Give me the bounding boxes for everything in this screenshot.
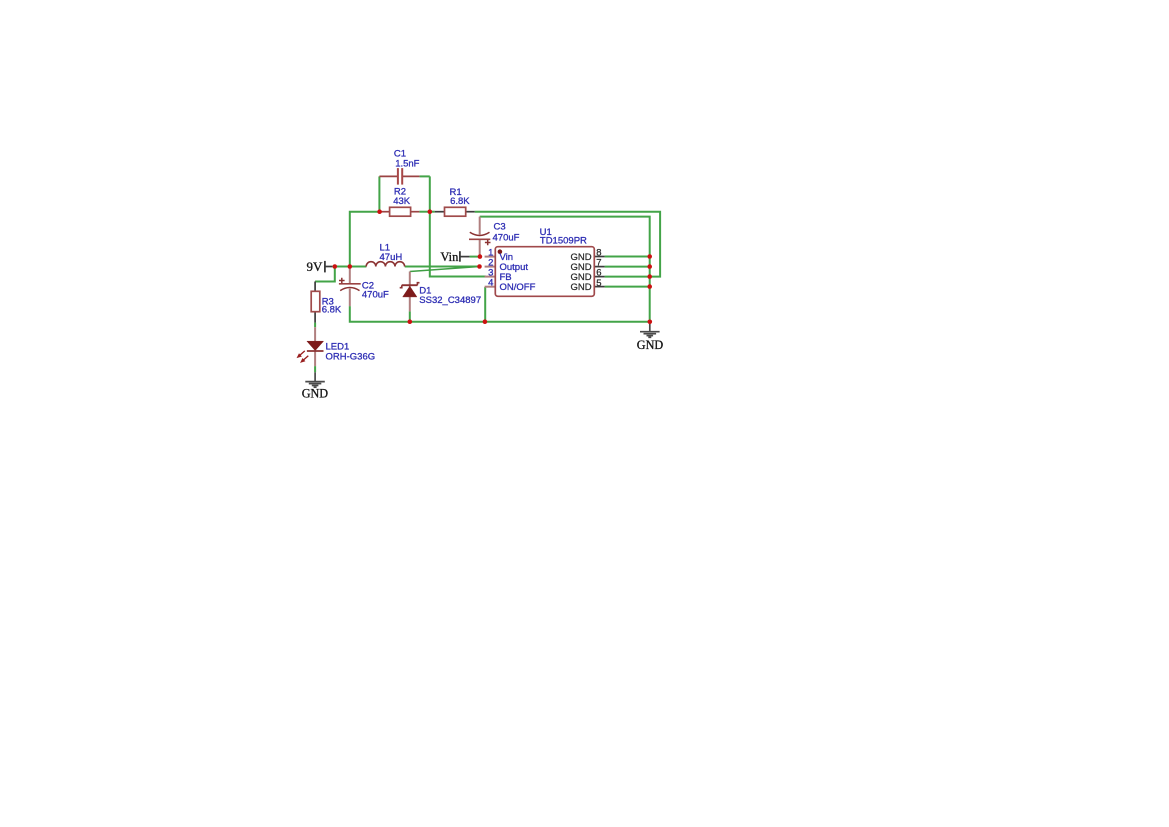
label C1 value bbox=[394, 148, 420, 169]
svg-text:470uF: 470uF bbox=[362, 289, 389, 300]
junction GND col pin6 bbox=[647, 274, 652, 279]
U1 pin names left bbox=[500, 252, 536, 293]
IC U1 TD1509PR bbox=[485, 247, 605, 297]
wire pin5 to GND column bbox=[605, 286, 650, 288]
port 9V bbox=[307, 259, 325, 274]
svg-text:43K: 43K bbox=[393, 196, 411, 207]
wire bottom ground rail bbox=[350, 306, 650, 322]
junction GND col pin5 bbox=[647, 284, 652, 289]
label LED1 value bbox=[326, 341, 376, 362]
diode D1 bbox=[400, 272, 420, 312]
svg-text:GND: GND bbox=[637, 338, 664, 352]
label U1 value bbox=[540, 227, 587, 247]
junction GND col pin7 bbox=[647, 264, 652, 269]
LED LED1 bbox=[297, 327, 323, 366]
port Vin bbox=[440, 250, 460, 264]
wire 9V to R3 bbox=[315, 267, 335, 282]
label C2 value bbox=[362, 280, 389, 300]
junction FB node bbox=[428, 209, 433, 214]
wire LED1 to GND bbox=[314, 366, 316, 372]
svg-text:SS32_C34897: SS32_C34897 bbox=[419, 295, 481, 306]
ground GND right bbox=[637, 322, 664, 352]
wire FB node vertical and FB pin line bbox=[430, 176, 486, 276]
svg-text:C3: C3 bbox=[494, 221, 506, 232]
wire C1 left riser bbox=[378, 176, 380, 211]
wire ON/OFF pin to rail bbox=[484, 287, 486, 322]
junction rail D1 bbox=[408, 319, 413, 324]
wire R1 right to GND column outer bbox=[475, 212, 660, 277]
svg-text:ORH-G36G: ORH-G36G bbox=[326, 351, 376, 362]
label L1 value bbox=[380, 242, 403, 263]
wire D1 anode to rail bbox=[409, 311, 411, 321]
wire pin8 to GND column bbox=[605, 256, 650, 258]
wire C3 top to GND column bbox=[480, 217, 650, 322]
label D1 value bbox=[419, 285, 481, 306]
label R3 value bbox=[322, 296, 342, 315]
capacitor C2 bbox=[339, 268, 361, 306]
svg-text:4: 4 bbox=[488, 278, 493, 289]
svg-text:6.8K: 6.8K bbox=[450, 196, 470, 207]
wire 9V riser to R2 row bbox=[350, 212, 380, 267]
svg-text:470uF: 470uF bbox=[493, 233, 520, 244]
resistor R3 bbox=[311, 282, 320, 323]
ground GND left bbox=[302, 372, 329, 400]
junction rail ON/OFF bbox=[483, 319, 488, 324]
junction C2 top bbox=[348, 264, 353, 269]
svg-text:1.5nF: 1.5nF bbox=[395, 159, 419, 170]
svg-text:9V: 9V bbox=[307, 259, 324, 274]
svg-text:GND: GND bbox=[570, 282, 591, 293]
inductor L1 bbox=[366, 262, 404, 267]
wire pin7 to GND column bbox=[605, 266, 650, 268]
wire pin6 to GND column bbox=[605, 276, 650, 278]
junction rail GND bbox=[648, 320, 653, 325]
junction 9V port bbox=[333, 264, 338, 269]
wire Vin port to pin1 bbox=[460, 256, 480, 258]
label C3 value bbox=[493, 221, 520, 243]
svg-text:5: 5 bbox=[596, 278, 601, 289]
svg-text:6.8K: 6.8K bbox=[322, 305, 342, 316]
wire R3 to LED1 bbox=[314, 323, 316, 328]
svg-text:GND: GND bbox=[302, 386, 329, 400]
label R1 value bbox=[450, 187, 471, 207]
wire output row L1 to pin2 bbox=[405, 266, 480, 268]
U1 pin numbers right bbox=[596, 248, 601, 289]
U1 pin numbers left bbox=[488, 248, 493, 289]
wire 9V horizontal to L1 bbox=[325, 266, 366, 268]
wire R2 right to R1 left bbox=[419, 211, 434, 213]
capacitor C1 bbox=[379, 168, 429, 185]
junction pin1 Vin bbox=[478, 254, 483, 259]
junction R2 left bbox=[377, 209, 382, 214]
junction pin2 output bbox=[477, 264, 482, 269]
svg-text:ON/OFF: ON/OFF bbox=[500, 282, 536, 293]
svg-text:47uH: 47uH bbox=[380, 252, 403, 263]
U1 pin names right GND bbox=[570, 252, 591, 293]
svg-text:Vin: Vin bbox=[440, 250, 459, 264]
resistor R1 bbox=[435, 207, 475, 216]
wire diagonal D1 to pin2 bbox=[410, 267, 480, 272]
capacitor C3 bbox=[469, 217, 491, 257]
label R2 value bbox=[393, 187, 411, 208]
svg-text:TD1509PR: TD1509PR bbox=[540, 236, 587, 247]
resistor R2 bbox=[380, 207, 420, 216]
junction GND col pin8 bbox=[647, 254, 652, 259]
